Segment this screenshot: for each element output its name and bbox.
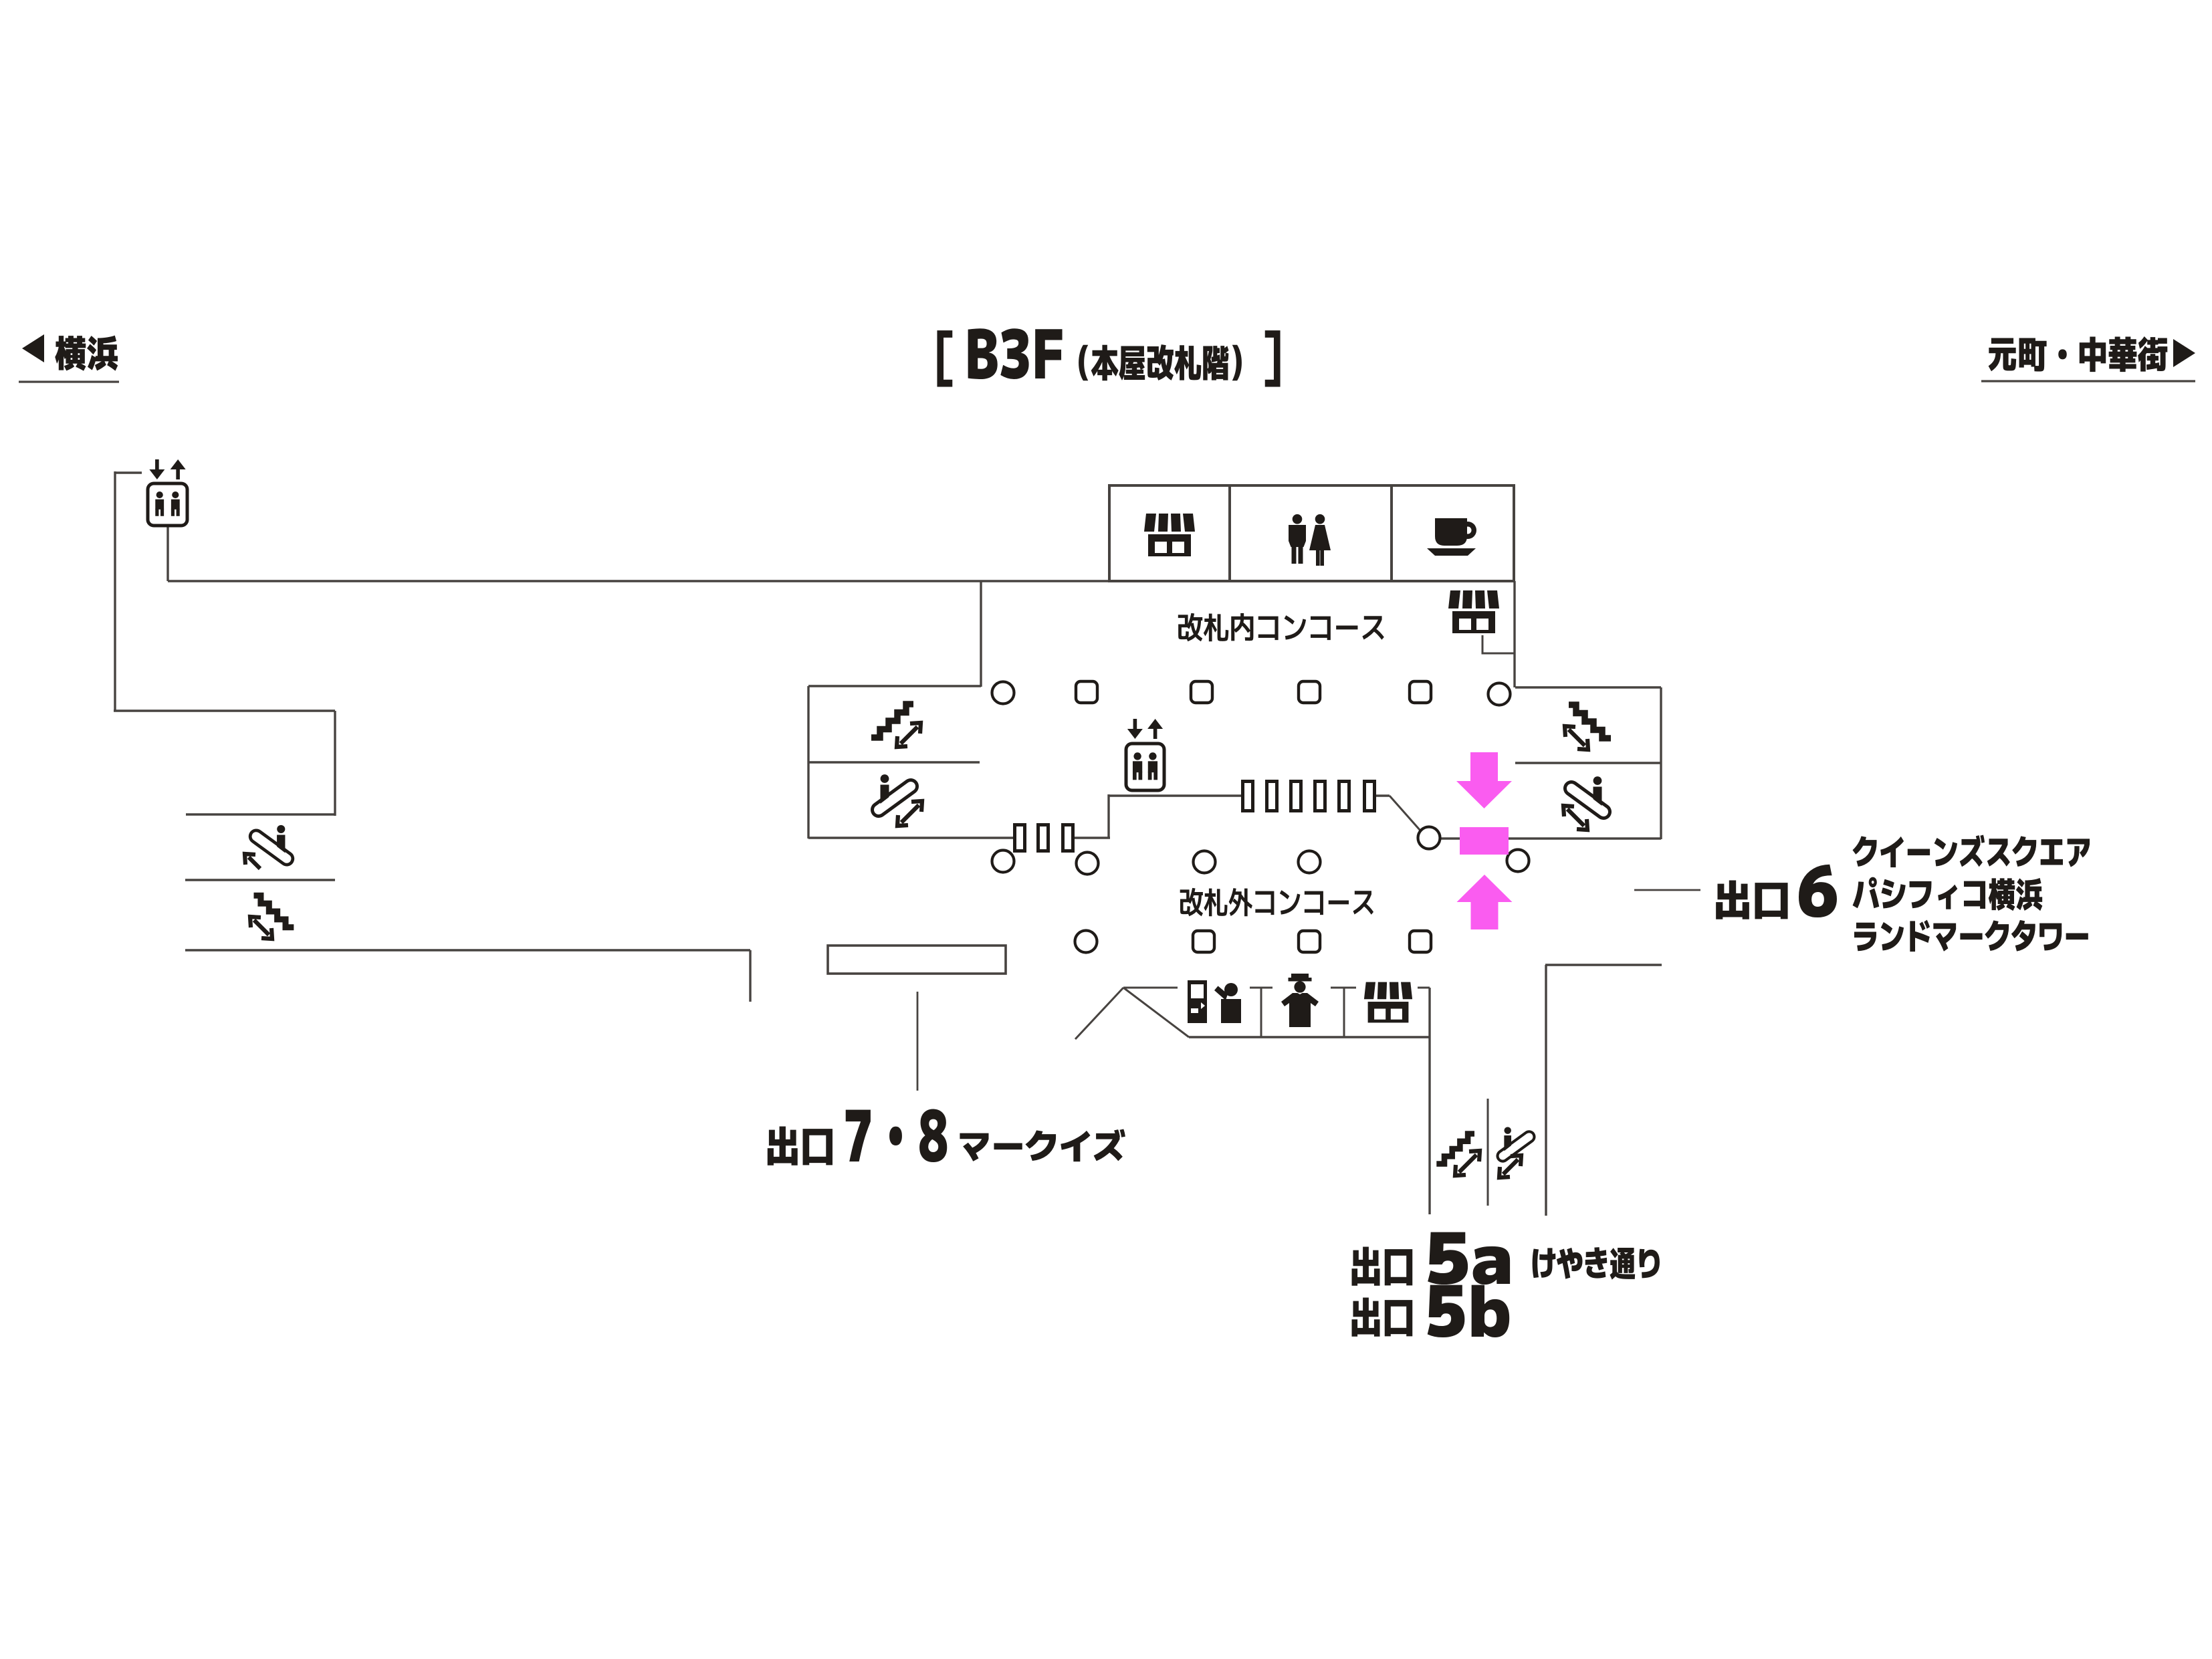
row2 pillar circle at left gates E xyxy=(1077,853,1099,875)
center ticket gate 6 xyxy=(1365,782,1375,811)
wall: paid-area right wall xyxy=(1513,581,1515,687)
left ticket gate 1 xyxy=(1015,825,1025,851)
facility icon: shop at right end of paid concourse xyxy=(1448,590,1499,633)
wire: shop L-connector xyxy=(1482,635,1514,653)
row1 pillar square 2 xyxy=(1191,681,1212,703)
exit5 stairwell escalator arrow xyxy=(1499,1155,1521,1178)
wall: corridor end vertical xyxy=(749,950,751,1002)
left ticket gate 2 xyxy=(1038,825,1048,851)
wall: exit5 stairwell left vertical xyxy=(1428,1037,1430,1214)
center ticket gate 5 xyxy=(1339,782,1349,811)
center ticket gate 3 xyxy=(1291,782,1301,811)
exit 5a destination Keyaki-dori xyxy=(1533,1247,1660,1280)
wall: exit5 stairwell divider xyxy=(1487,1099,1489,1206)
direction label Yokohama 横浜 xyxy=(55,336,118,371)
wall: office tent right diagonal xyxy=(1123,988,1189,1037)
exit 7-8 numbers xyxy=(846,1109,948,1163)
row1 pillar square 3 xyxy=(1299,681,1320,703)
corridor stairs arrow xyxy=(250,917,272,939)
wall: office top from peak xyxy=(1123,987,1178,989)
row1 pillar circle right xyxy=(1488,683,1511,705)
facility strip divider 2 xyxy=(1390,485,1393,581)
wall: top edge of paid concourse xyxy=(168,580,1515,582)
wall: office divider 2 xyxy=(1343,988,1345,1037)
junction pillar circle on gate line xyxy=(1418,827,1440,849)
left wing stairs arrow xyxy=(897,723,921,747)
exit 6 label 出口 xyxy=(1716,881,1787,919)
wall: gate line to center gates xyxy=(1109,794,1242,796)
label inside-gate concourse 改札内コンコース xyxy=(1178,613,1384,641)
left wing escalator arrow xyxy=(897,801,922,826)
row3 pillar square 1 xyxy=(1193,931,1214,952)
row1 pillar circle left xyxy=(992,682,1014,704)
wall: corridor upper horizontal xyxy=(114,709,335,711)
wall: gate line from junction to right wing edge xyxy=(1440,837,1661,839)
wall: gate line jog vertical xyxy=(1107,794,1109,838)
label outside-gate concourse 改札外コンコース xyxy=(1180,888,1373,916)
right wing escalator arrow xyxy=(1563,806,1587,830)
wire: elevator stub to left wall xyxy=(115,471,142,473)
row1 pillar square 4 xyxy=(1410,681,1431,703)
exit 7-8 label 出口 xyxy=(768,1127,833,1166)
exit 6 destination Pacifico Yokohama xyxy=(1853,877,2043,911)
facility strip box (shop/toilet/cafe) xyxy=(1109,485,1514,581)
exit5 stairwell stairs icon xyxy=(1436,1134,1474,1164)
facility icon: cafe (in strip) xyxy=(1427,518,1476,556)
wall: right wing top edge xyxy=(1515,686,1661,688)
wall: right wing right edge xyxy=(1660,687,1662,839)
corridor stairs icon (mirrored) xyxy=(254,895,294,927)
leader line to exit 7-8 xyxy=(917,992,919,1091)
direction arrow right (to Motomachi-Chukagai) xyxy=(2173,339,2195,367)
row2 pillar circle mid E xyxy=(1299,851,1321,873)
center ticket gate 4 xyxy=(1315,782,1325,811)
underline under Motomachi-Chukagai label xyxy=(1981,380,2195,382)
row3 pillar square 3 xyxy=(1410,931,1431,952)
office icon: station attendant xyxy=(1281,974,1319,1027)
corridor escalator arrow NW xyxy=(245,854,260,869)
wall: office tent left diagonal xyxy=(1075,988,1123,1039)
wall: far-left vertical corridor wall xyxy=(114,471,116,711)
left ticket gate 3 xyxy=(1063,825,1073,851)
office icon: kiosk shop xyxy=(1364,982,1412,1023)
exit 5a number xyxy=(1428,1232,1510,1285)
elevator icon top-left with up/down arrows xyxy=(148,459,187,526)
direction arrow left (to Yokohama) xyxy=(22,334,44,362)
wall: office divider 1 xyxy=(1260,988,1262,1037)
right wing stairs arrow xyxy=(1565,726,1588,750)
exit 6 destination Queens Square xyxy=(1852,835,2090,868)
exit 7-8 stair box xyxy=(828,946,1006,974)
wall: corridor line between escalator and stairs xyxy=(185,879,335,881)
row2 pillar circle mid W xyxy=(1194,851,1216,873)
right wing escalator icon (mirrored) xyxy=(1571,776,1603,812)
direction label Motomachi-Chukagai 元町・中華街 xyxy=(1989,336,2168,372)
underline under Yokohama label xyxy=(19,380,119,382)
right wing stairs icon (mirrored) xyxy=(1569,705,1611,738)
wall: gate line between left and center gates xyxy=(1073,837,1110,839)
wall: left wing left edge xyxy=(807,686,809,839)
row2 pillar circle right xyxy=(1507,850,1529,872)
facility icon: toilets (in strip) xyxy=(1289,514,1331,566)
left wing escalator icon xyxy=(879,774,911,810)
center ticket gate 1 xyxy=(1243,782,1253,811)
facility icon: shop (in strip) xyxy=(1144,514,1195,556)
office icon: ticket machine with person xyxy=(1188,980,1241,1023)
wall: long lower corridor line xyxy=(185,949,750,951)
exit 5b number xyxy=(1428,1285,1510,1337)
wall: left wing bottom edge to left gates xyxy=(808,837,1014,839)
wall: paid-area left wall xyxy=(980,581,982,687)
wall: exit5 stairwell right vertical xyxy=(1545,965,1547,1216)
exit 7-8 destination Mark Is xyxy=(960,1129,1125,1162)
exit 5a label 出口 xyxy=(1352,1247,1413,1286)
left wing stairs icon xyxy=(871,704,913,738)
wall: gate line after center gates xyxy=(1375,794,1390,796)
wall: office bottom edge xyxy=(1189,1036,1430,1038)
wall: office top segment 4 xyxy=(1418,987,1430,989)
center ticket gate 2 xyxy=(1267,782,1277,811)
corridor escalator icon (mirrored, up only) xyxy=(256,825,287,859)
wall: diagonal to junction pillar xyxy=(1390,796,1420,831)
wire: elevator to top edge xyxy=(167,526,169,581)
wall: left wing top edge xyxy=(808,685,981,687)
exit 5b label 出口 xyxy=(1352,1298,1413,1337)
row3 pillar circle xyxy=(1075,931,1097,953)
wall: corridor right vertical xyxy=(334,711,336,816)
wall: office right edge down xyxy=(1428,988,1430,1037)
floor title [ B3F (main gate level) ] xyxy=(937,328,1280,386)
exit 6 destination Landmark Tower xyxy=(1854,920,2088,952)
wall: lower-right horizontal above exit5 stairwell xyxy=(1545,964,1662,966)
wall: office top segment 3 xyxy=(1331,987,1356,989)
wall: right wing divider (stairs/escalator) xyxy=(1515,762,1661,764)
pink up arrow (from platform) xyxy=(1457,875,1513,929)
exit5 stairwell escalator icon xyxy=(1503,1127,1529,1155)
wall: corridor lower horizontal (above escalator) xyxy=(186,813,335,815)
wall: office top segment 2 xyxy=(1250,987,1273,989)
center elevator icon with arrows xyxy=(1126,719,1164,790)
row2 pillar circle at left gates W xyxy=(992,851,1014,873)
leader line to exit 6 xyxy=(1634,889,1700,891)
exit 6 number xyxy=(1799,865,1837,917)
pink rectangle (location marker) xyxy=(1460,827,1509,855)
row1 pillar square 1 xyxy=(1076,681,1097,703)
exit5 stairwell stairs arrow xyxy=(1455,1151,1480,1176)
wall: left wing divider (stairs/escalator) xyxy=(808,761,980,763)
facility strip divider 1 xyxy=(1228,485,1231,581)
row3 pillar square 2 xyxy=(1299,931,1320,952)
pink down arrow (to platform) xyxy=(1456,752,1512,808)
